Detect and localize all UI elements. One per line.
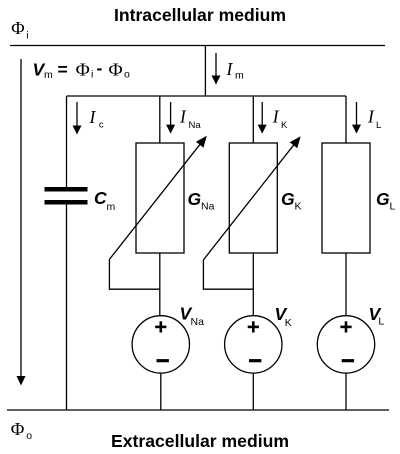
node Phi_o label [11, 419, 32, 442]
svg-text:I: I [89, 107, 97, 127]
battery VK (source circle with + and -) [225, 316, 282, 373]
resistor GNa box (variable conductance) [136, 143, 184, 253]
battery VNa (source circle with + and -) [132, 316, 189, 373]
svg-text:-: - [97, 58, 103, 78]
label C_m [94, 188, 116, 213]
svg-text:Intracellular medium: Intracellular medium [114, 5, 286, 25]
label: Vm = Phi_i - Phi_o [33, 58, 131, 81]
wire: GNa branch middle [159, 253, 161, 316]
current arrow IK [258, 102, 267, 134]
svg-text:K: K [281, 120, 288, 131]
label V_Na [180, 303, 205, 328]
wire: GK branch middle [252, 253, 254, 316]
wire: GK branch lower [252, 373, 254, 410]
label V_K [275, 304, 292, 329]
svg-text:=: = [58, 60, 68, 80]
wire: top rail (intracellular node) [10, 45, 385, 47]
svg-text:Na: Na [191, 316, 205, 328]
wire: GNa arrow tail hook [109, 259, 159, 289]
svg-text:L: L [390, 201, 396, 213]
svg-text:G: G [188, 189, 202, 209]
svg-text:G: G [376, 189, 390, 209]
svg-text:I: I [226, 59, 234, 79]
svg-text:I: I [179, 107, 187, 127]
label G_L [376, 189, 396, 213]
wire: GNa branch lower [160, 373, 162, 410]
svg-text:o: o [26, 430, 32, 442]
wire: capacitor branch lower [66, 205, 68, 411]
svg-text:L: L [376, 120, 381, 131]
svg-text:Φ: Φ [76, 60, 90, 80]
svg-text:Φ: Φ [11, 18, 24, 38]
arrow: Vm measurement (Phi_i to Phi_o) [17, 59, 26, 386]
label I_L [367, 107, 381, 131]
wire: inner rail [67, 95, 347, 97]
variable arrow through GNa [109, 136, 206, 260]
wire: GL branch lower [345, 373, 347, 410]
battery VL (source circle with + and -) [317, 316, 374, 373]
svg-text:o: o [124, 69, 130, 81]
current arrow IL [352, 102, 361, 134]
svg-text:Na: Na [201, 201, 215, 213]
wire: GK arrow tail hook [203, 260, 253, 289]
svg-text:K: K [295, 201, 302, 213]
wire: GL branch upper [345, 96, 347, 143]
current arrow Im [212, 53, 221, 85]
svg-text:Extracellular medium: Extracellular medium [111, 431, 289, 451]
current arrow INa [166, 102, 175, 134]
svg-text:I: I [272, 107, 280, 127]
svg-text:Na: Na [189, 120, 202, 131]
svg-text:i: i [91, 69, 93, 81]
current arrow Ic [73, 102, 82, 135]
wire: capacitor branch upper [66, 96, 68, 187]
capacitor Cm plates [45, 187, 88, 205]
svg-text:G: G [281, 189, 295, 209]
wire: GL branch middle [345, 253, 347, 316]
svg-text:K: K [285, 317, 292, 329]
node Phi_i label [11, 18, 28, 41]
label I_m [226, 59, 245, 81]
resistor GL box (leak conductance) [322, 143, 370, 253]
wire: GNa branch upper [159, 96, 161, 143]
svg-text:m: m [235, 70, 244, 82]
svg-text:L: L [378, 315, 384, 327]
wire: bottom rail (extracellular node) [7, 409, 389, 411]
label G_Na [188, 189, 215, 213]
resistor GK box (variable conductance) [229, 143, 277, 253]
label I_c [89, 107, 104, 131]
variable arrow through GK [203, 136, 300, 260]
svg-text:Φ: Φ [11, 419, 25, 439]
label V_L [369, 304, 385, 327]
svg-text:i: i [26, 29, 28, 41]
svg-text:I: I [367, 107, 375, 127]
svg-text:m: m [107, 201, 116, 213]
label I_K [272, 107, 288, 131]
label I_Na [179, 107, 201, 131]
svg-text:c: c [99, 120, 104, 131]
wire: GK branch upper [252, 96, 254, 143]
svg-text:Φ: Φ [109, 60, 123, 80]
svg-text:C: C [94, 188, 107, 208]
wire: Im connector from top rail to inner rail [204, 46, 206, 97]
label G_K [281, 189, 302, 213]
svg-text:m: m [44, 69, 53, 81]
